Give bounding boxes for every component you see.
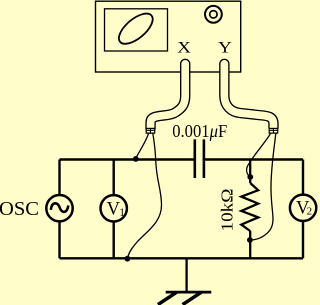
svg-text:0.001μF: 0.001μF: [172, 121, 227, 141]
svg-text:10kΩ: 10kΩ: [217, 189, 236, 232]
svg-text:2: 2: [307, 205, 313, 217]
svg-text:1: 1: [119, 207, 125, 219]
svg-text:OSC: OSC: [0, 198, 39, 220]
svg-text:Y: Y: [218, 38, 232, 56]
svg-text:X: X: [177, 38, 191, 56]
